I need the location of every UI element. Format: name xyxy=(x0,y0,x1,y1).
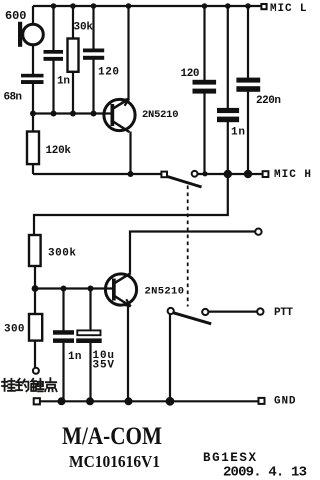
svg-text:2N5210: 2N5210 xyxy=(142,109,179,121)
svg-text:300k: 300k xyxy=(48,248,76,260)
svg-text:1n: 1n xyxy=(231,127,245,139)
svg-text:300: 300 xyxy=(4,324,25,336)
svg-text:MC101616V1: MC101616V1 xyxy=(69,452,160,471)
svg-text:2N5210: 2N5210 xyxy=(145,286,185,298)
svg-text:M/A-COM: M/A-COM xyxy=(62,423,162,450)
svg-text:220n: 220n xyxy=(256,95,281,107)
svg-text:PTT: PTT xyxy=(274,307,293,319)
svg-text:120: 120 xyxy=(181,68,200,80)
svg-text:120k: 120k xyxy=(46,145,72,157)
svg-text:MIC L: MIC L xyxy=(270,3,307,15)
svg-text:30k: 30k xyxy=(74,22,94,34)
svg-text:GND: GND xyxy=(274,396,296,408)
svg-text:1n: 1n xyxy=(57,76,70,88)
svg-text:68n: 68n xyxy=(4,91,23,103)
svg-text:2009. 4. 13: 2009. 4. 13 xyxy=(223,465,307,480)
svg-text:35V: 35V xyxy=(93,359,115,371)
svg-text:600: 600 xyxy=(5,9,27,23)
svg-text:1n: 1n xyxy=(68,351,82,363)
svg-text:MIC H: MIC H xyxy=(274,169,311,181)
svg-text:120: 120 xyxy=(98,66,119,78)
